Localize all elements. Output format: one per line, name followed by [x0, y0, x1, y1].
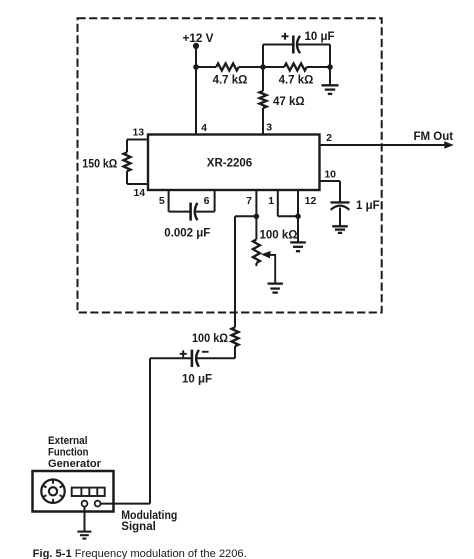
- svg-text:10: 10: [324, 168, 336, 180]
- svg-text:6: 6: [204, 195, 210, 207]
- pin 1 stub down: [277, 190, 279, 216]
- wire generator ground: [84, 506, 86, 531]
- generator terminal right: [95, 501, 101, 507]
- wire +12V down to pin 4: [195, 46, 197, 135]
- capacitor 10 uF input curved plate: [196, 350, 199, 367]
- dashed enclosure box: [78, 18, 382, 312]
- wire 47k to pin 3: [262, 108, 264, 135]
- pin 5 stub down: [168, 190, 170, 212]
- resistor 100 k-ohm series: [232, 327, 239, 346]
- generator buttons: [72, 488, 105, 496]
- capacitor 0.002 uF curved plate: [195, 203, 198, 220]
- +12 V terminal dot: [193, 43, 199, 49]
- op IC XR-2206 body: [148, 135, 320, 191]
- pin 14 stub: [127, 183, 148, 185]
- svg-text:4: 4: [201, 122, 207, 134]
- wire down to generator: [149, 358, 151, 503]
- svg-text:100 kΩ: 100 kΩ: [260, 230, 298, 242]
- svg-text:2: 2: [326, 132, 332, 144]
- node B junction dot: [260, 64, 266, 70]
- svg-text:Function: Function: [48, 446, 89, 458]
- ground under pin 12: [290, 241, 306, 243]
- capacitor 10 uF plus sign: [282, 35, 289, 37]
- wire pin1 to pin12: [278, 215, 298, 217]
- capacitor 10 uF input minus sign: [202, 351, 209, 353]
- resistor 47 k-ohm: [260, 91, 267, 108]
- wire supply rail segment 3: [307, 66, 330, 68]
- svg-text:Fig. 5-1 Frequency modulation: Fig. 5-1 Frequency modulation of the 220…: [33, 548, 247, 559]
- svg-text:10 μF: 10 μF: [305, 31, 335, 43]
- wire below series resistor: [234, 346, 236, 358]
- svg-text:XR-2206: XR-2206: [207, 157, 252, 169]
- svg-text:7: 7: [246, 195, 252, 207]
- wire cap top right: [297, 44, 330, 46]
- wire node B up: [262, 45, 264, 68]
- capacitor 10 uF curved plate: [297, 36, 300, 53]
- potentiometer 100 k-ohm: [253, 239, 260, 263]
- wire 10uF left: [150, 357, 191, 359]
- wire to pin14: [126, 171, 128, 184]
- pin 6 stub down: [214, 190, 216, 212]
- ground under node C: [322, 84, 339, 86]
- wire supply rail segment 1: [196, 66, 216, 68]
- svg-text:4.7 kΩ: 4.7 kΩ: [213, 75, 248, 87]
- wire cap top left: [263, 44, 292, 46]
- svg-text:150 kΩ: 150 kΩ: [82, 158, 117, 170]
- pot bottom stub: [255, 263, 257, 266]
- node C junction dot: [327, 64, 333, 70]
- wire node C up: [329, 45, 331, 68]
- node pin12 junction dot: [295, 214, 301, 220]
- svg-text:+12 V: +12 V: [183, 33, 214, 45]
- node junction dot at supply rail: [193, 64, 199, 70]
- wire 1uF to ground: [339, 208, 341, 227]
- wire generator output: [100, 503, 150, 505]
- wire FM out: [320, 144, 446, 146]
- svg-text:14: 14: [133, 187, 145, 199]
- wire pin12 to ground: [297, 216, 299, 242]
- capacitor 0.002 uF left plate: [189, 203, 192, 221]
- svg-text:3: 3: [266, 121, 272, 133]
- generator dial: [41, 480, 64, 503]
- pin 10 stub: [320, 180, 341, 182]
- svg-text:13: 13: [132, 126, 144, 138]
- generator terminal left: [82, 501, 88, 507]
- svg-text:5: 5: [159, 195, 165, 207]
- capacitor 10 uF input plus sign: [180, 353, 187, 355]
- svg-text:Generator: Generator: [48, 458, 102, 470]
- svg-text:10 μF: 10 μF: [182, 373, 212, 385]
- wire to 0.002uF left: [169, 211, 190, 213]
- wire pin10 down: [339, 181, 341, 202]
- pot wiper arrow tail: [270, 255, 276, 283]
- svg-text:47 kΩ: 47 kΩ: [273, 96, 305, 108]
- wire pin13 down: [126, 140, 128, 153]
- capacitor 10 uF input plus plate: [191, 350, 194, 367]
- FM out arrowhead: [444, 141, 454, 149]
- capacitor 10 uF plus plate: [292, 36, 295, 54]
- svg-text:12: 12: [305, 195, 317, 207]
- wire node B down: [262, 67, 264, 91]
- pot wiper arrowhead: [261, 251, 271, 259]
- wire pin7 junction left: [235, 215, 256, 217]
- wire pin7 to pot: [255, 216, 257, 239]
- svg-text:4.7 kΩ: 4.7 kΩ: [279, 75, 314, 87]
- wire to 0.002uF right: [195, 211, 215, 213]
- ground under pot wiper: [268, 282, 283, 284]
- wire node C to ground: [329, 67, 331, 85]
- svg-text:100 kΩ: 100 kΩ: [192, 333, 228, 345]
- ground under 1 uF: [332, 225, 348, 227]
- svg-text:External: External: [48, 435, 88, 447]
- pin 12 stub down: [297, 190, 299, 216]
- svg-text:1: 1: [268, 195, 274, 207]
- svg-text:FM Out: FM Out: [414, 131, 454, 143]
- ground under generator: [77, 531, 91, 533]
- svg-text:Modulating: Modulating: [121, 510, 177, 522]
- wire 10uF right: [196, 357, 235, 359]
- resistor 150 k-ohm: [124, 152, 131, 171]
- resistor 4.7 k-ohm right: [284, 64, 307, 71]
- wire supply rail segment 2: [239, 66, 285, 68]
- generator box: [33, 471, 114, 512]
- capacitor 1 uF top plate: [331, 201, 350, 203]
- capacitor 1 uF curved plate: [331, 206, 350, 210]
- node pin7 junction dot: [254, 214, 260, 220]
- pin 13 stub: [127, 139, 148, 141]
- svg-text:1 μF: 1 μF: [356, 200, 380, 212]
- wire modulation vertical: [234, 216, 236, 327]
- svg-text:0.002 μF: 0.002 μF: [164, 227, 210, 239]
- resistor 4.7 k-ohm left: [216, 64, 239, 71]
- pin 7 stub down: [255, 190, 257, 216]
- svg-text:Signal: Signal: [121, 521, 156, 533]
